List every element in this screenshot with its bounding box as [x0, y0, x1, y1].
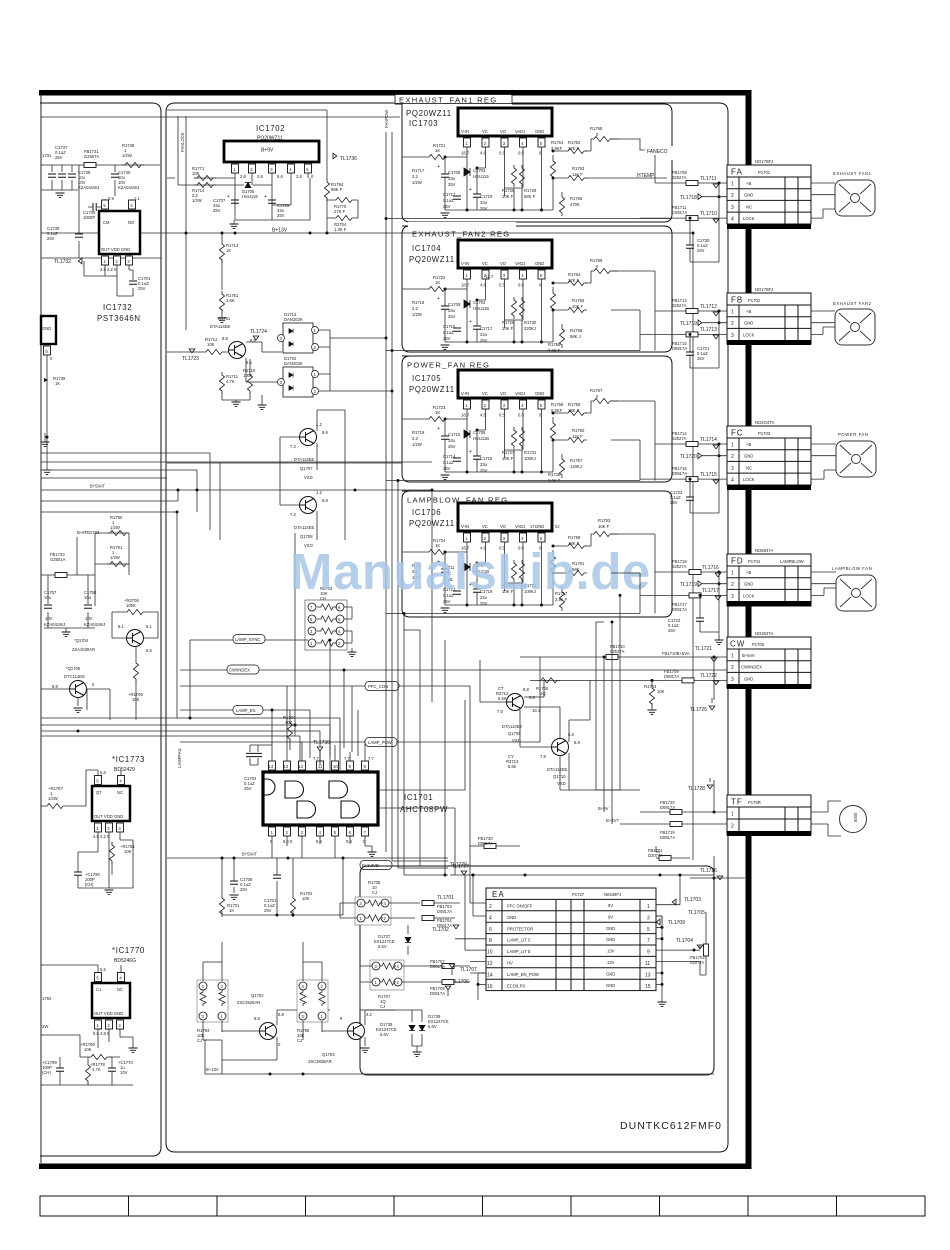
ground Q1711 area [258, 395, 267, 410]
resistor R1705 1Q [530, 678, 727, 696]
ground IC1773 [78, 845, 133, 895]
test point TL1709 [656, 916, 685, 927]
svg-text:PFC_CON: PFC_CON [368, 684, 388, 689]
svg-text:2.8: 2.8 [296, 174, 302, 179]
AND gate A [285, 781, 304, 798]
svg-text:D0817A: D0817A [672, 471, 687, 476]
svg-text:LAMPFAIL: LAMPFAIL [177, 747, 182, 768]
svg-text:CW/INDEX: CW/INDEX [741, 665, 762, 670]
svg-text:GND: GND [744, 454, 753, 459]
IC GND chip partial top-left [41, 316, 56, 470]
svg-text:25V: 25V [480, 206, 488, 211]
svg-text:13V: 13V [607, 949, 615, 954]
wire B+13V stub [203, 942, 412, 1010]
IC1705 designator [409, 374, 455, 394]
svg-text:10: 10 [333, 764, 338, 769]
svg-text:25V: 25V [47, 236, 55, 241]
svg-text:10u: 10u [84, 595, 92, 600]
transistor Q1711 DTA114EE [210, 316, 256, 365]
label 1792 left edge [42, 996, 52, 1029]
svg-text:CW/INDEX: CW/INDEX [229, 668, 250, 673]
svg-text:0.1uZ: 0.1uZ [443, 198, 454, 203]
svg-text:LAMP_SYNC: LAMP_SYNC [235, 637, 260, 642]
ferrite bead FB1704 D0817A [422, 916, 455, 929]
svg-text:NO17BFJ: NO17BFJ [755, 159, 773, 164]
svg-text:8.1: 8.1 [146, 624, 152, 629]
svg-text:1/2W: 1/2W [110, 555, 120, 560]
net B+13V label bottom-left [203, 1040, 222, 1074]
svg-text:TL1718: TL1718 [680, 195, 697, 201]
svg-text:C1719: C1719 [480, 194, 493, 199]
svg-text:8.8: 8.8 [322, 498, 328, 503]
svg-text:9V: 9V [608, 903, 613, 908]
svg-text:1792: 1792 [42, 996, 52, 1001]
resistor network R2703 10K CH [305, 586, 357, 657]
svg-text:B+13V: B+13V [272, 228, 288, 234]
capacitor C1721 0.1uZ 25V [686, 333, 719, 368]
capacitor C1701 0.1uZ 25V [117, 276, 151, 296]
transistor Q1705 DTC114EE [41, 666, 95, 713]
svg-text:TL1715: TL1715 [700, 472, 717, 478]
ferrite bead FB1703 D0817A [422, 901, 460, 915]
resistor R1761 3.6K [218, 291, 240, 323]
svg-text:TL1709: TL1709 [668, 920, 685, 926]
svg-text:D0817A: D0817A [664, 674, 679, 679]
svg-text:TL1714: TL1714 [700, 437, 717, 443]
net pill CW/INDEX [180, 665, 727, 674]
svg-text:1: 1 [731, 571, 734, 577]
test point TL1732 [54, 258, 84, 276]
svg-text:18K F: 18K F [568, 408, 580, 413]
svg-text:2: 2 [731, 193, 734, 199]
connector TF P170R [727, 795, 811, 836]
svg-text:100KJ: 100KJ [524, 456, 536, 461]
svg-text:5.6K: 5.6K [498, 696, 507, 701]
svg-text:GND: GND [42, 326, 51, 331]
svg-text:R1767: R1767 [590, 388, 603, 393]
svg-text:KZA041WJ: KZA041WJ [44, 622, 65, 627]
section title box EXHAUST_FAN1 REG [395, 95, 512, 105]
svg-text:C1705: C1705 [473, 430, 486, 435]
svg-text:HV: HV [507, 961, 513, 966]
wires around FB1733 [41, 533, 129, 628]
ferrite bead FB1733 G3501A [50, 552, 67, 578]
connector EA P1727 [486, 888, 656, 991]
svg-text:LAMP_POW: LAMP_POW [368, 740, 392, 745]
frame: thick bottom border [39, 1164, 751, 1170]
net pill LAMP_SYNC [190, 635, 308, 644]
ferrite bead FB1701 D207TA [648, 846, 690, 861]
exhaust fan 1 [811, 171, 875, 218]
svg-text:+B: +B [746, 309, 751, 314]
svg-text:8.8: 8.8 [346, 839, 352, 844]
wire bus upper-mid [41, 453, 402, 540]
svg-text:TL1717: TL1717 [702, 588, 719, 594]
svg-text:OUT VDD GND: OUT VDD GND [101, 247, 130, 252]
svg-text:25V: 25V [480, 338, 488, 343]
svg-text:14: 14 [487, 972, 493, 978]
IC1770 body [41, 965, 133, 1048]
svg-text:*Q1705: *Q1705 [66, 666, 81, 671]
svg-text:R1762: R1762 [568, 140, 581, 145]
svg-text:+: + [437, 164, 440, 170]
lampblow fan [811, 566, 876, 611]
svg-text:3: 3 [731, 677, 734, 683]
test point TL1723 [182, 349, 199, 362]
svg-text:Q1702: Q1702 [251, 993, 264, 998]
svg-text:FANPOW: FANPOW [384, 110, 389, 128]
svg-text:GND: GND [744, 193, 753, 198]
svg-text:8.0 0: 8.0 0 [283, 839, 293, 844]
thermal fuse motor symbol [811, 801, 867, 836]
diode array D1702 DAN202K [246, 356, 330, 397]
IC1702 body [224, 141, 319, 162]
svg-text:R1763: R1763 [572, 166, 585, 171]
resistor network R1707 1Q CJ [360, 960, 425, 1010]
test point TL1729 [450, 862, 467, 868]
svg-text:4.9 4.2 0: 4.9 4.2 0 [100, 267, 117, 272]
svg-text:NO5647A: NO5647A [755, 548, 774, 553]
svg-text:C1709: C1709 [448, 302, 461, 307]
svg-text:10V: 10V [120, 1070, 128, 1075]
resistor R1701 1K [219, 857, 240, 918]
svg-text:25V: 25V [697, 356, 705, 361]
wire S4 outputs to FD connector [611, 534, 655, 595]
capacitor C1701b 0.1uZ 25V [264, 858, 281, 915]
svg-text:1: 1 [647, 904, 650, 910]
svg-text:25V: 25V [668, 628, 676, 633]
wire FD +B feed [655, 559, 727, 577]
svg-text:68K F: 68K F [524, 194, 536, 199]
resistor R1714 2.2 1/2W [192, 182, 216, 203]
wire S3 outputs to FC connector [611, 401, 655, 479]
svg-text:5.5: 5.5 [100, 967, 106, 972]
svg-text:25V: 25V [443, 466, 451, 471]
regulator IC body (template) [386, 108, 640, 219]
svg-text:33u: 33u [480, 462, 488, 467]
svg-text:NO: NO [128, 220, 135, 225]
svg-text:DAN202K: DAN202K [284, 317, 303, 322]
svg-text:GND: GND [606, 971, 615, 976]
svg-text:B+6FB1733: B+6FB1733 [77, 530, 100, 535]
section box EXHAUST_FAN1 REG boundary [395, 104, 672, 222]
svg-text:33u: 33u [448, 438, 456, 443]
svg-text:R1754: R1754 [551, 140, 564, 145]
capacitor C1722 0.1uZ 25V [670, 478, 719, 513]
net pill B+3.3VD [360, 861, 392, 870]
svg-text:R1757: R1757 [570, 458, 583, 463]
wire FC +B feed [655, 431, 727, 449]
svg-text:C1703: C1703 [473, 168, 486, 173]
svg-text:25V: 25V [138, 286, 146, 291]
svg-text:13: 13 [645, 972, 651, 978]
svg-text:100K: 100K [243, 373, 253, 378]
capacitor C1770 1u 10V [108, 1057, 133, 1085]
svg-text:25V: 25V [213, 208, 221, 213]
test point TL1724 [246, 329, 282, 352]
svg-text:2: 2 [731, 582, 734, 588]
junction dots B+13V rail [185, 232, 695, 235]
test point TL1725 [690, 698, 715, 713]
svg-text:8.8: 8.8 [574, 740, 580, 745]
svg-text:22u: 22u [480, 332, 488, 337]
svg-text:FB: FB [731, 296, 743, 305]
svg-text:GND: GND [606, 983, 615, 988]
transistor Q1702 2SC3928AR [222, 993, 330, 1060]
svg-text:GND: GND [535, 129, 544, 134]
svg-text:R1735: R1735 [548, 472, 561, 477]
svg-text:VADJ: VADJ [515, 129, 525, 134]
wire bus to EA [392, 861, 448, 875]
svg-text:5.9: 5.9 [108, 196, 114, 201]
svg-text:02527A: 02527A [672, 175, 687, 180]
resistor R1781 10K [109, 842, 135, 875]
svg-text:8.8: 8.8 [278, 1012, 284, 1017]
svg-text:33u: 33u [448, 308, 456, 313]
svg-text:D207TA: D207TA [648, 853, 663, 858]
svg-text:8.8: 8.8 [222, 336, 228, 341]
svg-text:Q1709: Q1709 [508, 731, 521, 736]
svg-text:NO3637A: NO3637A [755, 631, 774, 636]
resistor R1790 10K [41, 1035, 120, 1060]
svg-text:25V: 25V [480, 468, 488, 473]
capacitor C1758 10u 10V KZA041WJ [84, 590, 105, 627]
connector CW P1705 [727, 631, 811, 689]
svg-text:R1725: R1725 [502, 188, 515, 193]
resistor network R1796 10K CJ [297, 962, 328, 1043]
resistor R1787 1 1/2W [41, 770, 86, 809]
svg-text:DTA114EE: DTA114EE [502, 724, 523, 729]
svg-text:IC1701: IC1701 [404, 793, 433, 802]
svg-text:C1: C1 [96, 987, 102, 992]
svg-text:R1718: R1718 [412, 300, 425, 305]
svg-text:8.8: 8.8 [254, 1016, 260, 1021]
test point TL1718 [680, 194, 727, 201]
svg-text:0.0: 0.0 [518, 151, 524, 156]
svg-text:LAMP_LIT C: LAMP_LIT C [507, 938, 531, 943]
svg-text:R1753: R1753 [598, 518, 611, 523]
svg-text:C1704: C1704 [473, 300, 486, 305]
test point TL1726 [690, 868, 745, 880]
resistor R1784 68K F [324, 179, 344, 201]
svg-text:B+5VAT: B+5VAT [242, 852, 258, 857]
IC1702 pins 1-5 [232, 162, 315, 179]
svg-text:CJ: CJ [380, 1004, 385, 1009]
svg-text:FD: FD [731, 557, 744, 566]
svg-text:1: 1 [731, 310, 734, 316]
svg-text:[CH]: [CH] [85, 882, 93, 887]
svg-text:0207TA: 0207TA [690, 960, 705, 965]
svg-text:P1702: P1702 [748, 298, 761, 303]
EA right stub wires [656, 916, 667, 1007]
svg-text:VSD: VSD [304, 475, 313, 480]
svg-text:5.6: 5.6 [246, 360, 252, 365]
svg-text:C1706: C1706 [448, 170, 461, 175]
svg-text:TL1712: TL1712 [700, 304, 717, 310]
svg-text:NO17BFJ: NO17BFJ [755, 287, 773, 292]
svg-text:TL1721: TL1721 [695, 646, 712, 652]
svg-text:QT: QT [96, 790, 102, 795]
svg-text:LOCK: LOCK [743, 216, 755, 221]
svg-text:EXHAUST FAN2: EXHAUST FAN2 [833, 301, 872, 306]
svg-text:+: + [469, 187, 472, 193]
frame: center main block rounded frame [166, 103, 728, 1152]
svg-text:G250TA: G250TA [84, 154, 99, 159]
svg-text:8.8: 8.8 [523, 687, 529, 692]
wire: IC1702 top rail to R1784 [167, 110, 327, 233]
svg-text:VO: VO [500, 129, 507, 134]
wire TF pin1 feed [598, 800, 727, 815]
resistor R1748 [122, 162, 144, 167]
svg-text:R1729: R1729 [524, 188, 537, 193]
test point TL1704 [656, 938, 703, 952]
svg-text:13: 13 [284, 764, 289, 769]
svg-text:FA: FA [731, 168, 743, 177]
svg-text:1: 1 [731, 182, 734, 188]
svg-text:R1769: R1769 [590, 258, 603, 263]
svg-text:+: + [227, 194, 230, 200]
IC1770 designator [112, 946, 145, 964]
svg-text:AHCT08PW: AHCT08PW [400, 805, 448, 814]
svg-text:EXHAUST_FAN2 REG: EXHAUST_FAN2 REG [412, 230, 510, 239]
svg-text:TL1706: TL1706 [452, 979, 469, 985]
resistor R1778 4.7K [41, 1057, 133, 1085]
svg-text:TL1701: TL1701 [437, 895, 454, 901]
svg-text:25V: 25V [448, 182, 456, 187]
svg-text:5.5: 5.5 [100, 770, 106, 775]
wire band lower-left [41, 463, 340, 770]
svg-text:0.1uZ: 0.1uZ [443, 460, 454, 465]
capacitor C1705 1000P [83, 203, 102, 220]
svg-text:10K: 10K [84, 1047, 92, 1052]
test point TL1706 [445, 973, 486, 996]
section box EXHAUST_FAN2 REG boundary [402, 222, 672, 352]
resistor R1739 1K [44, 376, 66, 439]
svg-text:HSU119: HSU119 [242, 194, 258, 199]
svg-text:6000: 6000 [853, 812, 858, 822]
svg-text:7.7: 7.7 [313, 756, 319, 761]
svg-text:1/2W: 1/2W [192, 198, 202, 203]
svg-text:P1727: P1727 [572, 892, 585, 897]
svg-text:*Q1704: *Q1704 [74, 638, 89, 643]
svg-text:5.6K F: 5.6K F [548, 348, 561, 353]
svg-text:N0439FJ: N0439FJ [604, 892, 621, 897]
svg-text:TL1720: TL1720 [680, 454, 697, 460]
svg-text:7.2: 7.2 [290, 512, 296, 517]
svg-text:58K J: 58K J [570, 334, 581, 339]
svg-text:2SA1530AR: 2SA1530AR [72, 647, 95, 652]
frame: thick top border [39, 90, 751, 96]
svg-text:7.7: 7.7 [344, 756, 350, 761]
net B+13V rail [41, 228, 693, 861]
svg-text:C1717: C1717 [480, 326, 493, 331]
section box POWER_FAN REG boundary [402, 356, 672, 482]
svg-text:PROTECTOR: PROTECTOR [507, 926, 533, 931]
ground capacitor bank [62, 628, 71, 637]
svg-text:+B: +B [746, 181, 751, 186]
svg-text:TL1719: TL1719 [680, 321, 697, 327]
svg-text:18.1: 18.1 [532, 708, 541, 713]
svg-text:CJ: CJ [372, 890, 377, 895]
svg-text:DTA114EE: DTA114EE [210, 324, 231, 329]
svg-text:5.6V: 5.6V [428, 1024, 437, 1029]
svg-text:1.3K F: 1.3K F [334, 227, 347, 232]
svg-text:10K F: 10K F [598, 524, 610, 529]
wire FA LOCK feed [640, 205, 727, 223]
svg-text:TL1716: TL1716 [702, 565, 719, 571]
svg-text:6: 6 [489, 927, 492, 933]
svg-text:9V: 9V [608, 914, 613, 919]
svg-text:10K: 10K [124, 849, 132, 854]
svg-text:NC: NC [117, 790, 123, 795]
ferrite bead FB1730 D0817A [470, 836, 520, 849]
regulator IC U-FAN2 internals [386, 240, 640, 351]
wire S2 outputs to FB connector [611, 271, 655, 334]
section title POWER_FAN REG [405, 358, 490, 370]
svg-text:R1717: R1717 [412, 168, 425, 173]
IC1773 body [86, 770, 133, 852]
net pill LAMP_EN [180, 706, 310, 759]
svg-text:1/2W: 1/2W [48, 796, 58, 801]
svg-text:10: 10 [487, 950, 493, 956]
svg-text:R1756: R1756 [551, 402, 564, 407]
resistor R1771 10K [192, 166, 216, 181]
svg-text:2W: 2W [42, 1024, 48, 1029]
svg-text:27K F: 27K F [568, 146, 580, 151]
svg-text:8.6: 8.6 [277, 174, 283, 179]
ferrite bead FB1731 [84, 163, 96, 168]
svg-text:R1766: R1766 [570, 328, 583, 333]
svg-text:02527A: 02527A [672, 564, 687, 569]
test point TL1705 [688, 910, 705, 916]
wire lamp power routing [540, 657, 640, 790]
transistor Q1703 2SC3928AR [308, 1010, 395, 1064]
regulator internal template instantiations [386, 108, 640, 219]
transistor Q1707 DTA114EE VSD [290, 422, 328, 480]
resistor R1706 10K [87, 647, 143, 720]
IC1732 designator [97, 303, 141, 323]
svg-text:12: 12 [299, 764, 304, 769]
ferrite bead FB1705 D0817A [425, 980, 470, 997]
svg-text:B+5VA: B+5VA [742, 653, 755, 658]
svg-text:11: 11 [318, 764, 323, 769]
svg-text:2.2: 2.2 [412, 306, 418, 311]
net B+5VAT wire [41, 484, 432, 502]
S2 component labels [412, 258, 603, 353]
svg-text:EXHAUST FAN1: EXHAUST FAN1 [833, 171, 872, 176]
svg-text:R1703: R1703 [644, 684, 657, 689]
mid feeder verticals to connectors [640, 155, 655, 614]
svg-text:7: 7 [647, 938, 650, 944]
svg-text:100K: 100K [126, 603, 136, 608]
svg-text:D0817A: D0817A [478, 841, 493, 846]
resistor R1751 1 1/2W [107, 545, 129, 567]
svg-text:11: 11 [645, 961, 650, 967]
svg-text:10K: 10K [657, 689, 665, 694]
wire FC LOCK feed [640, 466, 727, 484]
svg-text:27K F: 27K F [568, 278, 580, 283]
test point TL1720 [680, 453, 727, 460]
wire FANPOW vertical [386, 132, 392, 351]
svg-text:3: 3 [731, 333, 734, 339]
svg-text:B+9V: B+9V [598, 806, 609, 811]
test point TL1727 [450, 864, 714, 1066]
capacitor C1725 33u 25V [264, 194, 290, 218]
diode D1705 HSU119 [242, 182, 258, 199]
svg-text:GND: GND [507, 915, 516, 920]
svg-text:GND: GND [606, 926, 615, 931]
svg-text:2.2: 2.2 [412, 174, 418, 179]
